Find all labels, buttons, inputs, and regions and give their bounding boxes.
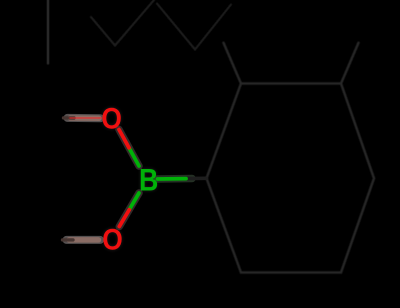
benzene ring	[207, 43, 375, 273]
methyl on TR vertex	[341, 43, 359, 84]
halo B-ring bond	[158, 175, 193, 183]
bond B to top O: boron half (green)	[129, 148, 139, 166]
fragment zigzag right	[157, 4, 231, 50]
methyl on TL vertex	[224, 43, 242, 84]
wire ring edge TR-R	[341, 84, 374, 179]
bond B to bottom O: oxygen half (red)	[119, 210, 129, 227]
wire ring edge BR-BL	[241, 271, 341, 274]
svg-text:B: B	[139, 164, 158, 198]
wire ring edge TL-TR	[241, 82, 341, 85]
bond B to ring: carbon half	[185, 177, 207, 181]
wire ring edge BL-L	[207, 178, 242, 272]
bond B to bottom O: boron half (green)	[129, 193, 139, 210]
top methoxy bond: carbon tip	[64, 116, 75, 119]
halo methoxy top	[68, 114, 101, 122]
fragment zigzag left	[91, 0, 154, 46]
bottom methoxy bond: red part	[70, 238, 100, 242]
bottom methoxy bond: carbon tip	[63, 238, 74, 241]
bond B to ring: boron half	[158, 177, 187, 181]
halo methoxy bottom	[67, 236, 101, 244]
halo B-Obot bond	[119, 193, 139, 227]
top methoxy bond: red part	[71, 116, 100, 120]
halo B-Otop bond	[119, 130, 139, 167]
wire ring edge L-TL	[207, 84, 242, 179]
halo underlays (jpeg-style luma bands)	[67, 118, 193, 240]
fragment vertical line	[47, 0, 49, 64]
atom label halos	[101, 101, 158, 256]
wire ring edge R-BR	[341, 178, 374, 272]
stray fragment lines top-left	[48, 0, 231, 64]
svg-text:O: O	[102, 222, 123, 256]
bond B to top O: oxygen half (red)	[119, 130, 129, 148]
svg-text:O: O	[101, 101, 122, 135]
